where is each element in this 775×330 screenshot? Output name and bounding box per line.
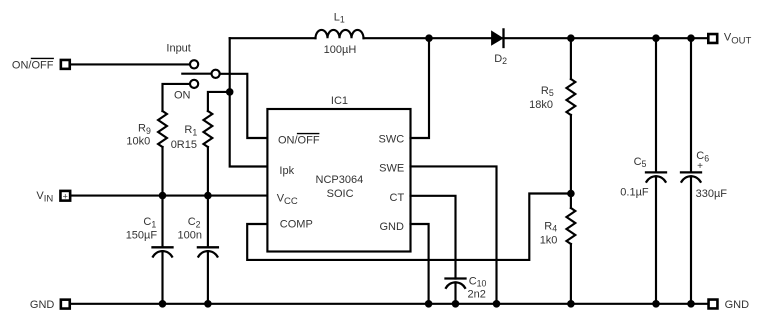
wire COMP pin loop to feedback node [247,194,571,260]
switch S1 common contact [212,70,220,78]
wire top rail middle segment [364,37,708,39]
switch S1 input contact [190,60,198,68]
diode D2 [491,29,504,47]
pin label SWC [379,133,405,145]
label 100n [178,230,202,242]
node gnd C6 [687,300,695,308]
svg-text:GND: GND [379,221,404,233]
label C6 [696,150,709,163]
inductor L1 [316,30,364,38]
label 10k0 [126,136,150,148]
terminal GND right [709,300,718,309]
svg-text:+: + [63,191,68,201]
wire R1 bottom to VIN rail [207,147,209,196]
label GND left [30,299,55,311]
svg-text:NCP3064: NCP3064 [316,174,364,186]
wire top rail left segment [230,37,316,39]
wire junction to R1 top [208,92,230,111]
svg-text:SOIC: SOIC [327,188,354,200]
label VOUT [724,31,752,46]
svg-text:CT: CT [390,192,405,204]
node VIN/R9/C1 [159,192,167,200]
resistor R5 [567,38,576,193]
wire input feed: top rail left end down to Ipk pin [230,38,268,166]
node gnd C1 [159,300,167,308]
node gnd C5 [652,300,660,308]
wire ground rail [72,303,708,305]
capacitor C1 [153,196,173,304]
terminal VIN [60,191,70,201]
label 0R15 [171,139,197,151]
pin label VCC [277,193,298,207]
pin label ON/OFF [278,135,320,147]
label 330uF [696,188,728,200]
svg-text:ON/OFF: ON/OFF [12,59,54,71]
wire GND pin to ground [411,224,429,304]
svg-text:330µF: 330µF [696,188,728,200]
svg-text:ON: ON [174,90,191,102]
switch S1 blade [182,73,210,75]
label R5 [541,85,554,98]
label Input [166,42,190,54]
pin label CT [390,192,405,204]
label R1 [184,124,197,137]
label SOIC [327,188,354,200]
label ON [174,90,191,102]
node gnd C2 [204,300,212,308]
label 150uF [126,230,158,242]
wire ON/OFF terminal to switch input [72,63,190,65]
label 18k0 [529,99,553,111]
capacitor C10 [446,279,466,304]
svg-text:2n2: 2n2 [468,288,486,300]
svg-text:18k0: 18k0 [529,99,553,111]
svg-text:COMP: COMP [280,218,313,230]
svg-text:SWC: SWC [379,133,405,145]
label VIN [36,190,53,205]
label IC1 [331,95,348,107]
wire SWE pin to ground [411,166,497,303]
svg-text:ON/OFF: ON/OFF [278,135,320,147]
node gnd C10 [452,300,460,308]
label D2 [494,53,507,66]
label R9 [138,123,151,136]
label 0.1uF [620,187,649,199]
label NCP3064 [316,174,364,186]
terminal ON/OFF [61,60,70,69]
IC1 box [267,109,410,252]
label C2 [188,216,201,229]
resistor R4 [567,194,576,304]
label R4 [544,220,557,233]
node top rail / C5 [652,34,660,42]
label 1k0 [540,235,558,247]
label C6 plus [697,161,703,172]
label C10 [469,275,487,288]
svg-text:100n: 100n [178,230,202,242]
node junction input feed / R1 top [226,88,234,96]
svg-text:0R15: 0R15 [171,139,197,151]
svg-text:1k0: 1k0 [540,235,558,247]
node VIN/R1/C2 [204,192,212,200]
wire VIN rail [72,195,268,197]
svg-text:GND: GND [725,299,750,311]
label GND right [725,299,750,311]
node gnd IC [425,300,433,308]
svg-text:100µH: 100µH [324,44,357,56]
pin label COMP [280,218,313,230]
label ON/OFF (overbar on OFF) [12,59,54,71]
resistor R9 [158,111,167,147]
pin label GND [379,221,404,233]
terminal VOUT [708,34,717,43]
capacitor C5 [646,38,666,304]
svg-text:+: + [697,161,703,172]
node top rail / SWC [425,34,433,42]
switch S1 ON contact [190,80,198,88]
svg-text:Ipk: Ipk [279,165,294,177]
capacitor C2 [198,196,218,304]
label C5 [634,156,647,169]
label L1 [334,12,345,25]
svg-text:SWE: SWE [379,163,404,175]
wire SWC pin up to top rail [411,38,430,138]
resistor R1 [203,111,212,147]
wire switch common to IC ON/OFF pin [220,74,267,138]
label 2n2 [468,288,486,300]
svg-text:Input: Input [166,42,190,54]
svg-text:10k0: 10k0 [126,136,150,148]
svg-text:IC1: IC1 [331,95,348,107]
node feedback R5/R4/COMP [567,190,575,198]
pin label Ipk [279,165,294,177]
svg-text:150µF: 150µF [126,230,158,242]
wire CT pin to C10 [411,196,456,279]
node gnd R4 [567,300,575,308]
capacitor C6 [681,38,701,304]
label C1 [143,216,156,229]
label 100uH [324,44,357,56]
node top rail / C6 [687,34,695,42]
svg-text:GND: GND [30,299,55,311]
terminal GND left [61,300,70,309]
pin label SWE [379,163,404,175]
wire switch ON contact to R9 top [163,84,190,111]
node top rail / R5 [567,34,575,42]
node gnd SWE [493,300,501,308]
svg-text:0.1µF: 0.1µF [620,187,649,199]
wire R9 bottom to VIN rail [161,147,163,196]
